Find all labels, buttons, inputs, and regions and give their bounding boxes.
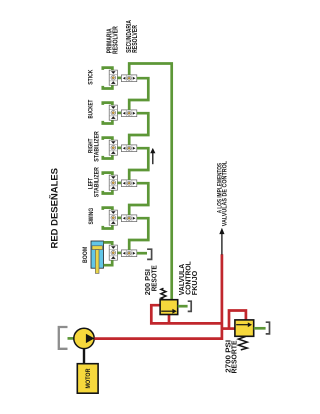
- svg-text:BUCKET: BUCKET: [88, 99, 95, 118]
- svg-text:STABILIZER: STABILIZER: [93, 131, 100, 162]
- label 200 PSI RESOTE: [143, 265, 159, 295]
- label PRIMARIA RESOLVER: [107, 26, 120, 54]
- wire flow control valve bottom return: [168, 315, 171, 324]
- valve STICK (primary+secondary resolver): [103, 68, 137, 89]
- label RIGHT STABILIZER: [88, 131, 101, 162]
- svg-text:MOTOR: MOTOR: [85, 368, 92, 388]
- label VALVULA CONTROL FKUJO: [177, 261, 199, 295]
- motor M1: [77, 364, 98, 394]
- shaft pump to motor: [83, 349, 85, 364]
- wire relief valve outlet: [254, 327, 266, 330]
- svg-text:RESORTE: RESORTE: [229, 340, 238, 373]
- bracket relief valve outlet: [266, 322, 270, 334]
- wire resolver cascade LEFT STABILIZER to SWING: [129, 183, 148, 215]
- arrow signal flow direction: [150, 148, 155, 164]
- bracket boom cascade terminator: [147, 249, 152, 259]
- wire relief valve pilot loop: [229, 311, 246, 329]
- valve RIGHT STABILIZER: [103, 138, 137, 159]
- wire resolver cascade STICK to BUCKET: [129, 78, 148, 110]
- svg-text:STICK: STICK: [88, 69, 95, 84]
- bracket flow control valve outlet: [188, 301, 192, 311]
- wire pump inlet: [68, 337, 75, 340]
- pump P1: [74, 328, 95, 348]
- label 2700 PSI RESORTE: [224, 340, 239, 374]
- boom cylinder: [91, 241, 104, 273]
- wire resolver cascade SWING to BOOM: [129, 218, 148, 250]
- wire resolver cascade RIGHT to LEFT STABILIZER: [129, 148, 148, 180]
- valve SWING: [103, 208, 137, 229]
- wire flow control valve loop: [151, 305, 222, 323]
- arrow to implement control valves: [219, 228, 224, 255]
- svg-text:STABILIZER: STABILIZER: [93, 167, 100, 197]
- wire boom cylinder head side: [104, 242, 113, 245]
- svg-text:VALVULAS DE CONTROL: VALVULAS DE CONTROL: [222, 161, 229, 226]
- valve BOOM: [109, 245, 137, 260]
- svg-text:FKUJO: FKUJO: [190, 271, 199, 296]
- valve BUCKET: [103, 103, 137, 124]
- svg-text:RESOLVER: RESOLVER: [132, 25, 139, 53]
- label A LOS IMPLEMENTOS VALVULAS DE CONTROL: [216, 161, 228, 226]
- label SECUNDARIA RESOLVER: [126, 20, 139, 53]
- wire resolved signal line to flow control valve: [129, 64, 172, 300]
- wire resolver cascade BUCKET to RIGHT STABILIZER: [129, 113, 148, 145]
- tank symbol at pump inlet: [59, 327, 68, 349]
- wire relief valve feed: [222, 327, 235, 330]
- svg-text:RESOLVER: RESOLVER: [113, 26, 120, 54]
- wire pump pressure line and riser to implements: [94, 254, 221, 338]
- spring relief valve: [238, 337, 247, 350]
- wire boom cascade terminator stub: [137, 252, 147, 255]
- wire boom cylinder rod side: [104, 260, 113, 265]
- spring flow control valve: [161, 288, 166, 299]
- svg-text:BOOM: BOOM: [82, 247, 89, 263]
- svg-text:RESOTE: RESOTE: [150, 265, 159, 291]
- svg-text:SWING: SWING: [88, 208, 95, 225]
- wire flow control valve outlet: [178, 305, 188, 308]
- valve LEFT STABILIZER: [103, 173, 137, 194]
- svg-text:RED DESEÑALES: RED DESEÑALES: [50, 167, 61, 248]
- relief valve body 2700 psi: [235, 320, 254, 336]
- label LEFT STABILIZER: [88, 167, 101, 197]
- flow control valve body: [160, 300, 178, 315]
